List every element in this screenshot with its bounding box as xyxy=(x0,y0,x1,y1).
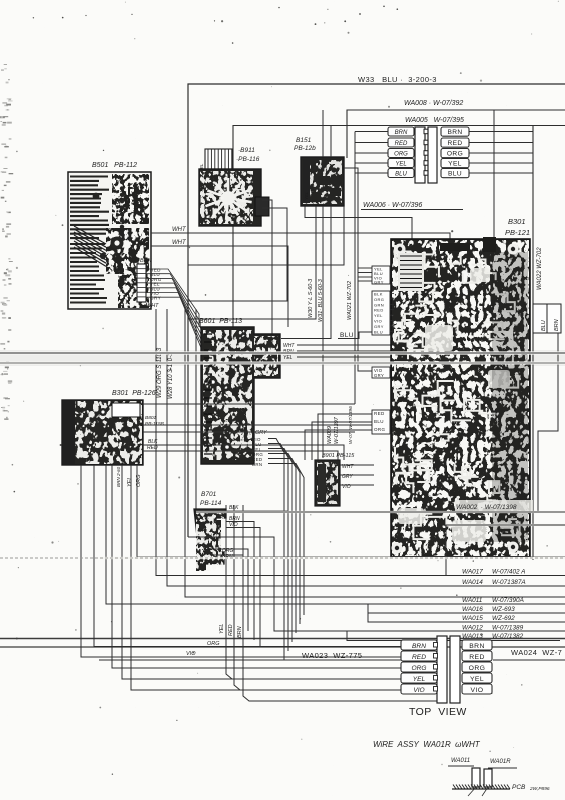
svg-text:B301: B301 xyxy=(508,217,526,226)
svg-text:B501 PB-112: B501 PB-112 xyxy=(92,162,137,169)
svg-text:WA016: WA016 xyxy=(462,606,483,613)
svg-text:VIO: VIO xyxy=(413,687,424,694)
wire B551 top to WA008 line xyxy=(322,110,324,157)
svg-text:ORG: ORG xyxy=(374,297,384,302)
svg-text:VIO: VIO xyxy=(186,651,196,657)
svg-text:YEL: YEL xyxy=(470,676,484,683)
svg-text:WA021 WZ-702: WA021 WZ-702 xyxy=(347,281,353,320)
label WA002 W-07/1398 on board xyxy=(455,500,533,511)
wire WA013 underline xyxy=(347,631,560,641)
connector CN2 right label boxes xyxy=(462,640,492,694)
svg-text:W29 ORG S-110-3: W29 ORG S-110-3 xyxy=(157,347,163,398)
svg-text:BLU: BLU xyxy=(374,419,384,424)
svg-text:ORG: ORG xyxy=(469,665,486,672)
svg-text:B701: B701 xyxy=(201,491,217,498)
svg-text:WA012: WA012 xyxy=(462,625,483,632)
svg-text:·PB-116: ·PB-116 xyxy=(236,156,260,163)
svg-text:GRY: GRY xyxy=(374,280,384,285)
labels fan column VIO..BRN xyxy=(252,437,263,467)
wire WA016/WA015 feeder xyxy=(368,604,565,613)
wires B901 right xyxy=(340,464,374,466)
svg-text:WZ-693: WZ-693 xyxy=(492,606,515,613)
connector plug 2 xyxy=(484,769,492,787)
svg-text:BRN: BRN xyxy=(140,258,152,264)
svg-text:RED: RED xyxy=(147,445,158,451)
wire long y660 right xyxy=(493,659,565,661)
svg-text:ORG: ORG xyxy=(394,151,408,157)
connector comb above B911 xyxy=(205,149,232,170)
connector CN1 pin strip left xyxy=(415,127,429,183)
svg-text:W-07/402 A: W-07/402 A xyxy=(492,569,525,576)
wire right vertical x533 along board xyxy=(532,126,534,561)
svg-text:YEL: YEL xyxy=(219,624,225,634)
svg-text:W-07/1382: W-07/1382 xyxy=(492,633,524,640)
svg-text:W-071387A: W-071387A xyxy=(492,579,526,586)
svg-text:W31· BLU 5-60-3: W31· BLU 5-60-3 xyxy=(318,278,324,322)
wire v x131 xyxy=(131,465,401,690)
wires fan from bracket to B601 xyxy=(146,269,206,360)
svg-text:ORG: ORG xyxy=(447,151,463,158)
svg-text:GRY: GRY xyxy=(374,324,384,329)
wires group A left xyxy=(358,267,372,269)
wire vertical x167 xyxy=(167,309,565,586)
svg-text:B901 PB-115: B901 PB-115 xyxy=(322,453,355,459)
svg-text:WA008 · W-07/392: WA008 · W-07/392 xyxy=(404,100,463,107)
svg-text:2W,P896: 2W,P896 xyxy=(529,786,550,792)
board B911 PB-116 xyxy=(199,169,261,226)
svg-text:WA017: WA017 xyxy=(462,569,483,576)
svg-text:VIO: VIO xyxy=(471,687,484,694)
svg-text:W-07/1389: W-07/1389 xyxy=(492,625,524,632)
connector CN2 strip right xyxy=(450,636,460,703)
wire bundle down from CN1 via x494 xyxy=(493,110,495,240)
wire BLU step up xyxy=(338,332,374,339)
wire big left vertical turn xyxy=(188,537,565,631)
dark fold line D xyxy=(0,638,565,640)
connector plug 1 xyxy=(472,768,480,787)
svg-text:·B911: ·B911 xyxy=(238,147,255,154)
svg-text:WA023 WZ-775: WA023 WZ-775 xyxy=(302,651,362,660)
wires fan into board from group B xyxy=(390,294,394,332)
connector bracket right of B501 xyxy=(137,264,146,302)
svg-text:BLK: BLK xyxy=(229,505,239,511)
wire BLK RED pair xyxy=(143,445,344,460)
svg-text:B301 PB-126: B301 PB-126 xyxy=(112,390,156,397)
svg-text:YEL: YEL xyxy=(304,191,309,200)
svg-text:WA011: WA011 xyxy=(462,597,483,604)
svg-text:YEL: YEL xyxy=(448,161,462,168)
svg-text:W-07/390A: W-07/390A xyxy=(492,597,524,604)
wire WA011 leader xyxy=(448,765,474,767)
board B551 PB-126 xyxy=(301,157,344,206)
connector CN1 left label boxes xyxy=(388,127,414,178)
board B701 PB-114 C-shape xyxy=(194,509,226,571)
svg-text:BLU: BLU xyxy=(374,329,383,334)
svg-text:TOP VIEW: TOP VIEW xyxy=(409,706,467,718)
label group RED BLU ORG xyxy=(372,410,390,434)
wire h525 xyxy=(446,525,565,576)
svg-text:WA002 · W-07/1398: WA002 · W-07/1398 xyxy=(456,504,517,511)
connector CN1 right label boxes xyxy=(441,127,469,178)
svg-text:W33 BLU · 3-200-3: W33 BLU · 3-200-3 xyxy=(358,75,437,84)
svg-text:BRN 2-60: BRN 2-60 xyxy=(116,466,121,487)
svg-text:YEL: YEL xyxy=(283,355,293,361)
svg-text:WHT: WHT xyxy=(146,303,159,309)
labels RED..GRY column xyxy=(150,268,162,301)
svg-text:WA009: WA009 xyxy=(327,426,333,444)
board B301 PB-126 xyxy=(62,400,143,465)
svg-text:YEL: YEL xyxy=(413,676,426,683)
svg-text:WA01R: WA01R xyxy=(490,759,511,765)
wire v x81 VIO loop xyxy=(81,465,401,657)
svg-text:WA015: WA015 xyxy=(462,615,483,622)
gray band at fold xyxy=(0,350,565,366)
svg-text:P1: P1 xyxy=(108,228,115,234)
svg-text:WHT: WHT xyxy=(172,227,187,233)
label rows WA0xx bottom right xyxy=(462,569,526,641)
svg-text:RED: RED xyxy=(374,411,385,416)
wire B551 bottom x331 BLU xyxy=(281,206,331,339)
svg-text:BRN: BRN xyxy=(395,130,408,136)
svg-text:GRY: GRY xyxy=(255,430,267,436)
connector CN2 strip left xyxy=(434,636,448,703)
board B901 PB-115 xyxy=(315,460,340,506)
svg-text:B801: B801 xyxy=(145,415,157,421)
svg-text:BRN: BRN xyxy=(237,626,243,638)
svg-text:YEL: YEL xyxy=(374,313,383,318)
svg-text:BRN: BRN xyxy=(252,462,262,467)
wires CN1 right to board bundle xyxy=(469,132,533,174)
svg-text:WA014: WA014 xyxy=(462,579,483,586)
svg-text:BLK: BLK xyxy=(374,292,383,297)
faint fold line C overlay xyxy=(100,557,565,559)
svg-text:GRY: GRY xyxy=(374,373,384,378)
svg-text:PB-121: PB-121 xyxy=(505,228,530,237)
faint fold line C xyxy=(0,557,565,559)
wire v x122 xyxy=(122,465,401,679)
wires CN1 left stubs xyxy=(355,132,388,405)
wire WHT2 xyxy=(151,246,288,327)
svg-text:W·07· W-07/1396: W·07· W-07/1396 xyxy=(348,406,354,444)
wire WHT1 xyxy=(151,233,450,240)
wire B551 bottom x344 xyxy=(188,206,344,265)
wire WA008 line xyxy=(347,110,565,158)
wire B911 stub lower xyxy=(188,208,287,301)
wires B301 PB-126 right side xyxy=(143,403,355,405)
wires WHT BRN YEL to B301 xyxy=(297,344,391,346)
page fold line A xyxy=(0,352,565,354)
svg-text:WA005 W-07/395: WA005 W-07/395 xyxy=(405,117,464,124)
svg-text:WA022 WZ-702: WA022 WZ-702 xyxy=(537,247,543,290)
svg-text:PCB: PCB xyxy=(512,784,526,791)
svg-text:WiRE ASSY WA01R ωWHT: WiRE ASSY WA01R ωWHT xyxy=(373,740,481,749)
wire B551 top 2 xyxy=(330,126,332,158)
wire W33 top loop xyxy=(188,84,565,537)
board B501 PB-112 xyxy=(68,172,151,309)
wire B551 bottom x316 xyxy=(188,206,316,319)
wire vertical x196 WA002 xyxy=(196,309,565,512)
label box BRN BLU rotated right edge xyxy=(533,304,561,333)
wire long y660 left xyxy=(99,659,401,661)
label group VIO GRY xyxy=(372,367,390,378)
connector stub right of B911 xyxy=(255,197,269,216)
svg-text:RED: RED xyxy=(447,140,462,147)
connector CN2 left label boxes xyxy=(401,640,437,694)
svg-text:ORG: ORG xyxy=(411,665,426,672)
wire notch right xyxy=(538,333,558,512)
wire B551 top right xyxy=(346,110,348,157)
svg-text:YEL: YEL xyxy=(127,477,133,487)
wire v x106 xyxy=(106,465,565,604)
leader lines under plugs xyxy=(468,787,476,796)
svg-text:WHT: WHT xyxy=(172,240,187,246)
svg-text:WA013: WA013 xyxy=(462,633,483,640)
svg-text:GRY: GRY xyxy=(150,296,161,301)
wire WA002 long line overlay xyxy=(196,511,565,513)
wire v x112 xyxy=(112,465,401,668)
wire B551 right to bundle xyxy=(344,168,374,371)
wire WA006 underline xyxy=(361,209,463,211)
trio verticals YEL RED BRN xyxy=(226,505,232,679)
svg-text:WZ-692: WZ-692 xyxy=(492,615,515,622)
svg-text:BRN: BRN xyxy=(554,319,560,331)
svg-text:WA006 · W-07/396: WA006 · W-07/396 xyxy=(363,202,422,209)
svg-text:YEL: YEL xyxy=(395,161,406,167)
svg-text:BRN: BRN xyxy=(447,129,462,136)
svg-text:RED: RED xyxy=(374,308,384,313)
svg-text:BLU: BLU xyxy=(395,171,407,177)
svg-text:BLU: BLU xyxy=(541,320,547,331)
svg-text:BLU: BLU xyxy=(340,332,354,339)
board B301 PB-121 xyxy=(391,237,530,557)
svg-text:VIO: VIO xyxy=(374,319,382,324)
wire v x137 xyxy=(137,465,565,557)
svg-text:ORG: ORG xyxy=(207,641,220,647)
svg-text:PB-114: PB-114 xyxy=(200,500,222,507)
svg-text:PB-115B: PB-115B xyxy=(145,421,165,427)
page fold line B xyxy=(0,362,565,364)
fold line B overlay xyxy=(0,362,565,365)
svg-text:RED: RED xyxy=(228,624,234,636)
svg-text:B151: B151 xyxy=(296,137,312,144)
connector CN1 pin strip right xyxy=(428,127,437,183)
label group BLK..BLU 8 rows xyxy=(372,291,390,335)
svg-text:GRN: GRN xyxy=(374,302,384,307)
svg-text:RED: RED xyxy=(412,654,426,661)
board B601 PB-113 L-shape xyxy=(201,327,280,464)
wire WA005 line xyxy=(233,126,565,328)
wires group D left to B901 xyxy=(318,414,372,460)
svg-text:B601 PB-113: B601 PB-113 xyxy=(199,318,242,325)
svg-text:RED: RED xyxy=(469,654,485,661)
wires B701 right xyxy=(226,511,288,604)
wire vertical x156 xyxy=(156,309,565,576)
svg-text:PB-12b: PB-12b xyxy=(294,145,316,152)
wires fan from B601 bottom going right-down xyxy=(268,439,304,661)
svg-text:W28 Y10 3-110-3: W28 Y10 3-110-3 xyxy=(168,352,174,399)
svg-text:WA011: WA011 xyxy=(451,758,470,764)
left edge scan noise strip xyxy=(0,64,13,420)
wire WA006 to board xyxy=(305,206,412,240)
wire B911 stub right xyxy=(262,200,272,334)
wire v x94 ORG loop xyxy=(94,465,401,647)
wire WA01R leader xyxy=(488,767,517,769)
top margin specks xyxy=(62,6,398,44)
wire vertical x185 xyxy=(185,309,565,597)
fold line A overlay xyxy=(0,351,565,354)
svg-text:BLU: BLU xyxy=(448,171,462,178)
svg-text:WA024 WZ-7: WA024 WZ-7 xyxy=(511,648,562,657)
PCB hatched strip xyxy=(452,785,510,790)
svg-text:BRN: BRN xyxy=(469,643,485,650)
svg-text:RED: RED xyxy=(395,141,408,147)
svg-text:W30 Y·L S-60-3: W30 Y·L S-60-3 xyxy=(308,278,314,318)
svg-text:ORG: ORG xyxy=(374,427,386,432)
wire B551 bottom x323 to B901 xyxy=(322,206,324,458)
label group YEL BLU VIO GRY xyxy=(372,266,390,285)
wire y525 overlay xyxy=(446,524,565,526)
dark fold line E xyxy=(0,646,565,648)
svg-text:BRN: BRN xyxy=(412,643,426,650)
